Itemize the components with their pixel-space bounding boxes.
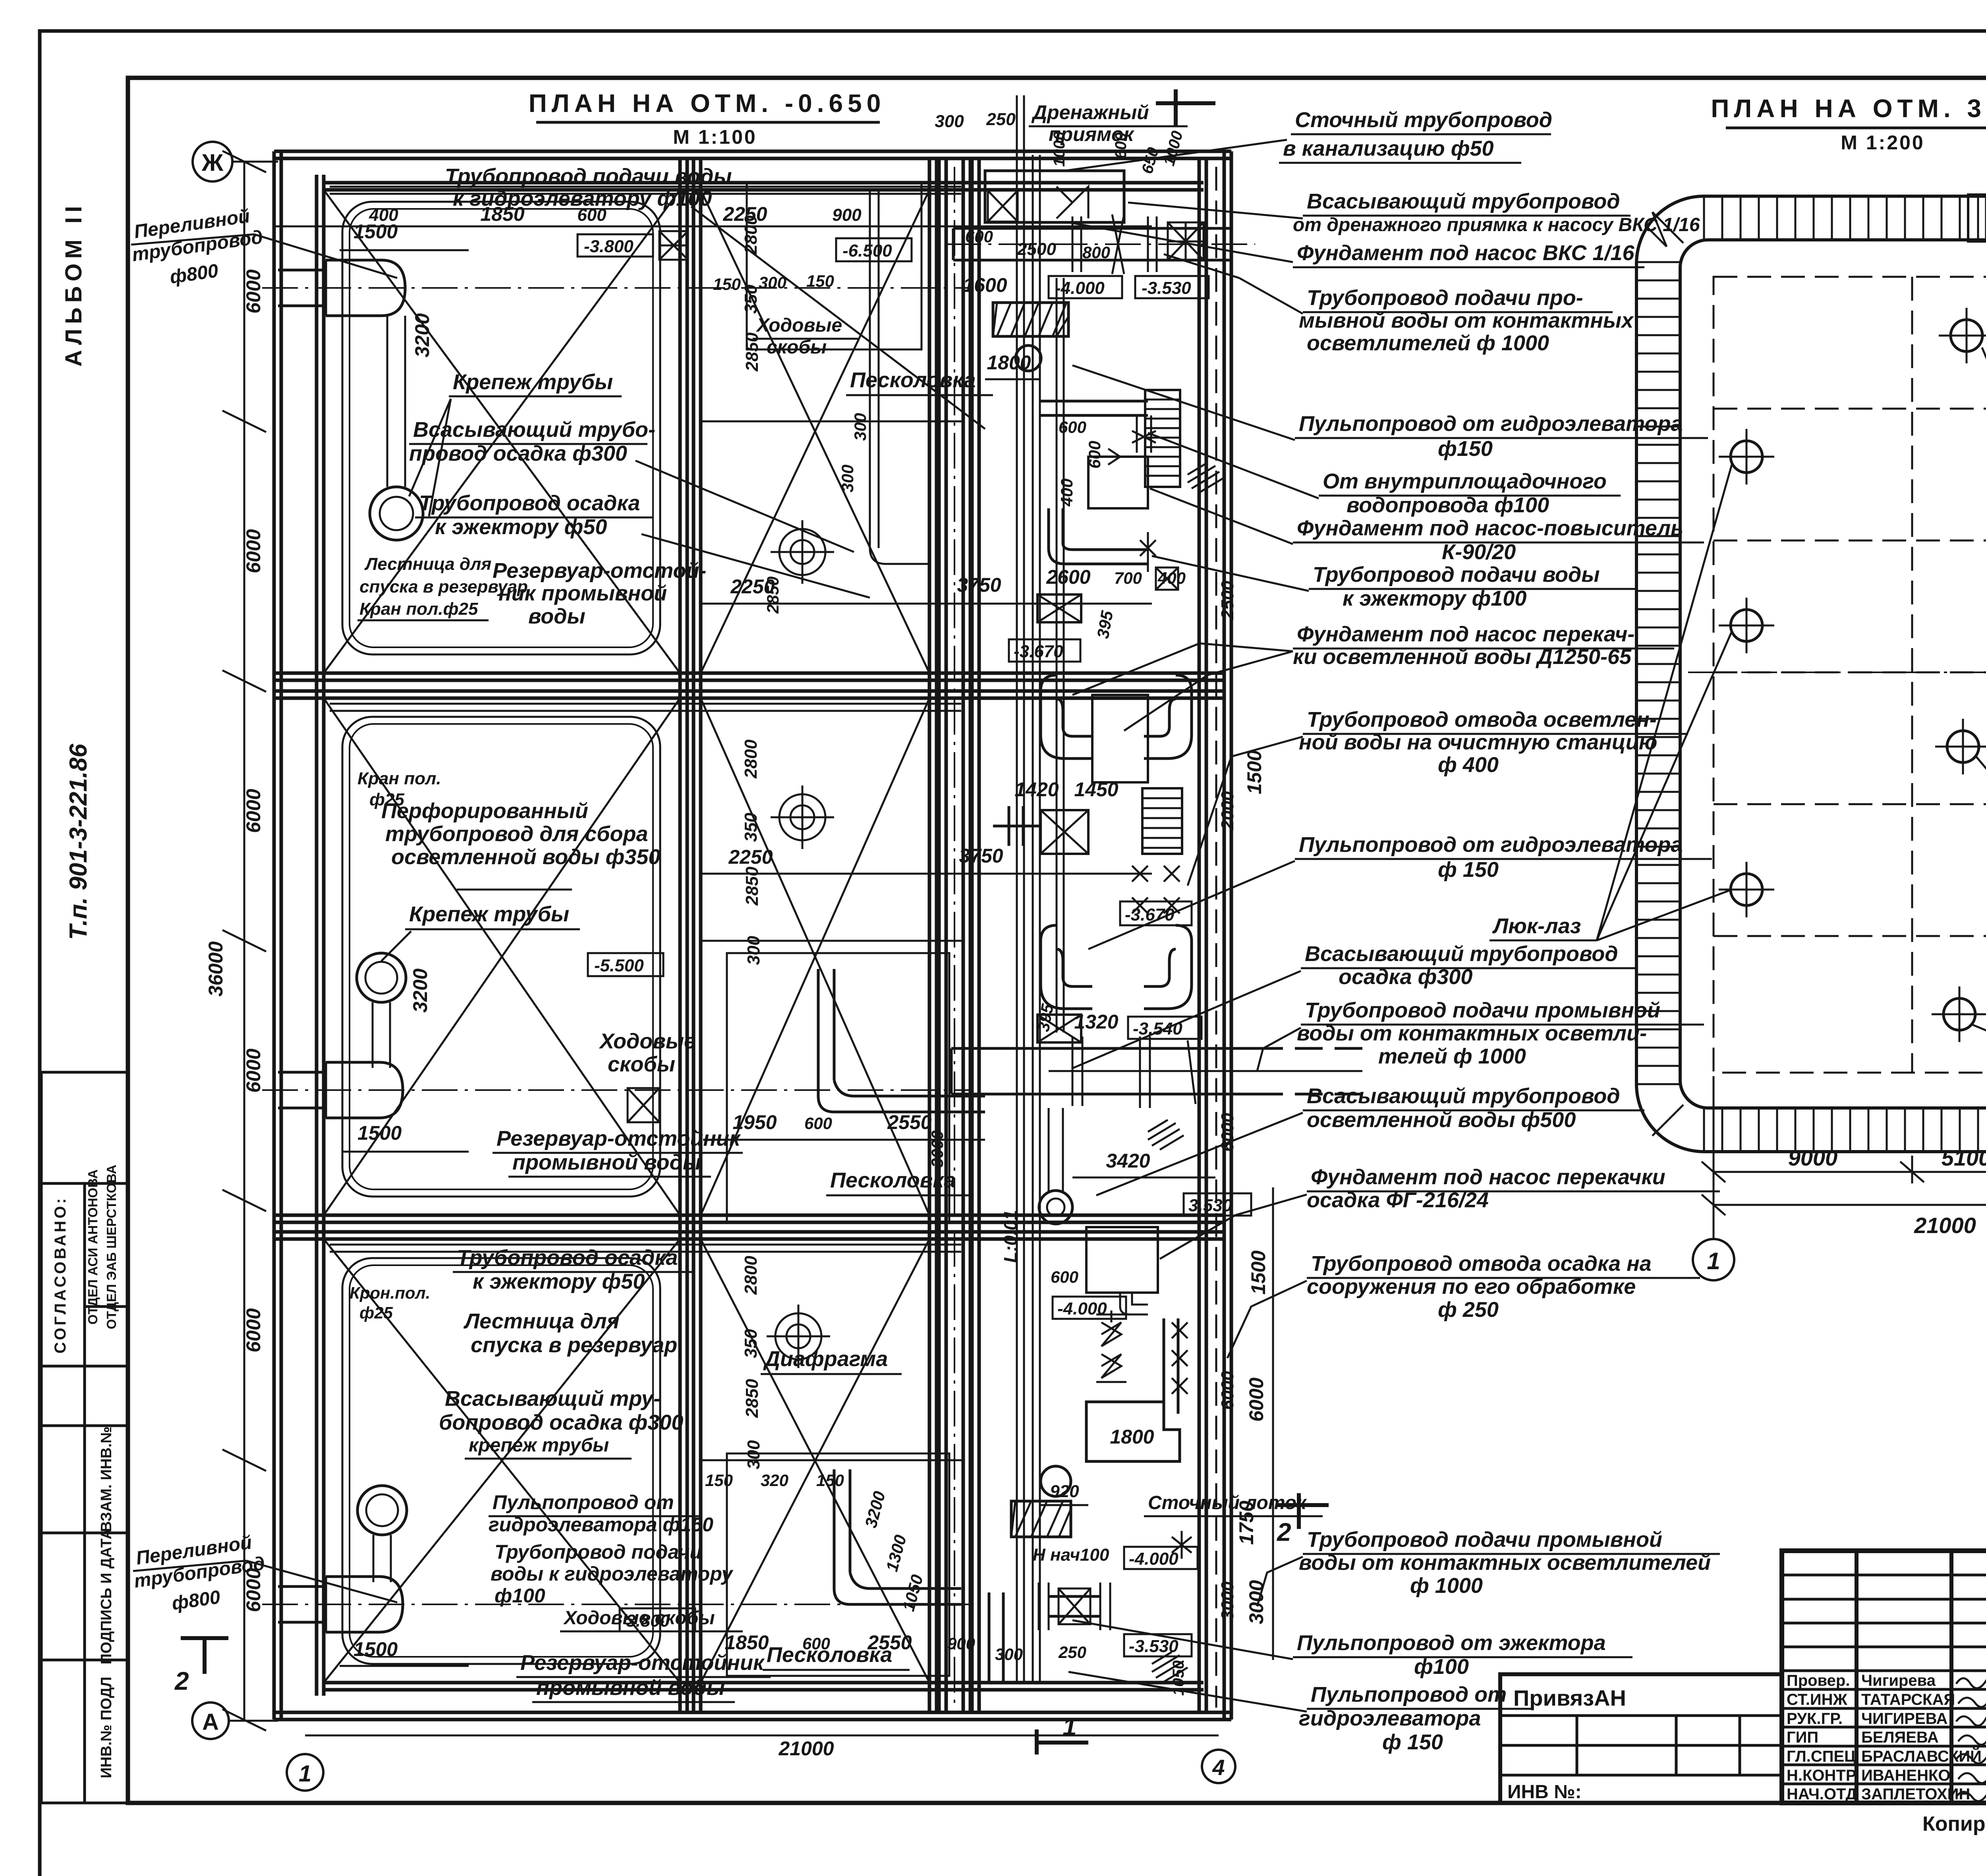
svg-text:Н нач100: Н нач100 — [1033, 1545, 1109, 1565]
diaphragm assembly — [993, 806, 1041, 846]
svg-text:-4.000: -4.000 — [1129, 1549, 1178, 1569]
svg-text:ф 1000: ф 1000 — [1410, 1574, 1483, 1598]
svg-text:1500: 1500 — [1247, 1251, 1269, 1295]
g:rightplan — [1636, 94, 1986, 1280]
svg-text:600: 600 — [1112, 132, 1130, 159]
svg-text:Лестница для: Лестница для — [364, 554, 491, 574]
funnel 1 — [771, 520, 834, 584]
margin stamp cells — [41, 1426, 128, 1803]
svg-text:Резервуар-отстойник: Резервуар-отстойник — [520, 1651, 765, 1675]
outer wall bottom — [274, 1711, 1231, 1714]
tank inner lining row2 — [342, 717, 660, 1197]
hatch squares mid — [1156, 567, 1178, 590]
svg-text:600: 600 — [1059, 418, 1086, 436]
level labels — [1049, 276, 1122, 298]
svg-text:300: 300 — [838, 465, 857, 492]
svg-text:-3.540: -3.540 — [1133, 1019, 1182, 1038]
svg-text:М 1:100: М 1:100 — [673, 126, 757, 148]
svg-text:ф150: ф150 — [1438, 437, 1493, 461]
svg-text:ЗАПЛЕТОХИН: ЗАПЛЕТОХИН — [1861, 1785, 1970, 1803]
tank inner lining row3 — [342, 1258, 660, 1664]
svg-text:300: 300 — [995, 1645, 1023, 1664]
svg-text:300: 300 — [744, 1440, 763, 1469]
svg-text:Всасывающий трубопровод: Всасывающий трубопровод — [1305, 942, 1618, 966]
svg-text:Всасывающий трубопровод: Всасывающий трубопровод — [1307, 1084, 1620, 1108]
svg-text:300: 300 — [759, 273, 786, 292]
svg-text:1950: 1950 — [732, 1111, 777, 1133]
g:leftplan — [262, 89, 1231, 1720]
border hatch ticks top — [1636, 196, 1986, 1152]
svg-text:21000: 21000 — [778, 1737, 834, 1760]
svg-text:300: 300 — [851, 413, 869, 441]
svg-text:СОГЛАСОВАНО:: СОГЛАСОВАНО: — [52, 1196, 69, 1354]
svg-text:ф 150: ф 150 — [1438, 858, 1499, 882]
section marker 2 right — [1277, 1493, 1329, 1529]
svg-text:1: 1 — [1707, 1248, 1720, 1274]
big washing-water pipe f1000 top — [953, 228, 1231, 260]
sand trap box row2 — [727, 953, 949, 1223]
svg-text:2800: 2800 — [741, 739, 761, 779]
svg-text:ПривязАН: ПривязАН — [1513, 1685, 1626, 1710]
ladder 1 — [1145, 390, 1180, 487]
axis circle A — [192, 1702, 229, 1739]
svg-text:Сточный лоток: Сточный лоток — [1148, 1492, 1307, 1513]
21000 dim — [305, 1735, 1219, 1737]
hatch marks scattered (pattern squares) — [1188, 463, 1223, 492]
svg-text:ВЗАМ. ИНВ.№: ВЗАМ. ИНВ.№ — [98, 1426, 115, 1532]
svg-text:600: 600 — [802, 1634, 830, 1653]
section marker 1 top — [1156, 89, 1215, 127]
svg-text:ф 400: ф 400 — [1438, 753, 1499, 777]
left columns — [1855, 1551, 1858, 1803]
ejector assembly bottom — [1041, 1466, 1071, 1496]
svg-text:-6.500: -6.500 — [842, 241, 892, 261]
svg-text:ТАТАРСКАЯ: ТАТАРСКАЯ — [1861, 1691, 1955, 1708]
svg-text:Сточный трубопровод: Сточный трубопровод — [1295, 108, 1552, 132]
svg-text:Т.п. 901-3-221.86: Т.п. 901-3-221.86 — [65, 744, 92, 940]
sand trap box row3 — [727, 1453, 949, 1676]
svg-text:Провер.: Провер. — [1787, 1672, 1850, 1689]
svg-text:150: 150 — [806, 272, 834, 290]
svg-text:250: 250 — [986, 110, 1016, 129]
ladder 2 — [1142, 788, 1182, 854]
svg-text:СТ.ИНЖ: СТ.ИНЖ — [1787, 1691, 1848, 1708]
svg-text:ф100: ф100 — [1414, 1655, 1469, 1679]
svg-text:Крепеж трубы: Крепеж трубы — [409, 902, 569, 926]
right-of-plan dims vertical — [1272, 1187, 1274, 1660]
svg-text:2550: 2550 — [867, 1631, 912, 1654]
svg-text:От внутриплощадочного: От внутриплощадочного — [1323, 469, 1607, 493]
svg-text:3200: 3200 — [409, 969, 431, 1013]
svg-text:БРАСЛАВСКИЙ: БРАСЛАВСКИЙ — [1861, 1747, 1982, 1765]
svg-text:350: 350 — [741, 813, 761, 842]
bottom flanged pipe assembly — [989, 1592, 1003, 1684]
svg-text:Пульпопровод от: Пульпопровод от — [493, 1491, 674, 1513]
axis dim line left — [243, 162, 245, 1720]
svg-text:ИНВ.№ ПОДЛ: ИНВ.№ ПОДЛ — [98, 1677, 115, 1778]
tank inner lining row1 — [342, 202, 660, 654]
svg-text:700: 700 — [1114, 569, 1142, 587]
svg-text:ПЛАН НА ОТМ. -0.650: ПЛАН НА ОТМ. -0.650 — [529, 89, 886, 118]
svg-text:6000: 6000 — [242, 269, 265, 313]
svg-text:1600: 1600 — [963, 274, 1007, 296]
svg-text:Пульпопровод от гидроэлеватора: Пульпопровод от гидроэлеватора — [1299, 412, 1683, 436]
svg-text:920: 920 — [1050, 1482, 1079, 1501]
svg-text:6000: 6000 — [242, 789, 265, 833]
svg-text:к эжектору ф50: к эжектору ф50 — [435, 515, 607, 539]
bottom axis circles — [287, 1754, 323, 1791]
svg-text:1450: 1450 — [1074, 778, 1118, 801]
main stamp frame — [1782, 1551, 1986, 1803]
svg-text:3420: 3420 — [1106, 1150, 1150, 1172]
svg-text:воды к гидроэлеватору: воды к гидроэлеватору — [491, 1563, 734, 1585]
svg-text:3000: 3000 — [928, 1131, 947, 1168]
svg-text:Перфорированный: Перфорированный — [381, 799, 588, 823]
svg-text:крепеж трубы: крепеж трубы — [469, 1435, 609, 1456]
tank1 drop pipe + ring — [387, 316, 405, 487]
svg-text:6000: 6000 — [242, 529, 265, 573]
svg-text:Трубопровод подачи воды: Трубопровод подачи воды — [1313, 563, 1600, 587]
svg-text:Крепеж трубы: Крепеж трубы — [453, 370, 613, 394]
svg-text:350: 350 — [741, 1329, 761, 1358]
svg-text:3.530: 3.530 — [1188, 1196, 1233, 1215]
svg-text:1750: 1750 — [1235, 1501, 1258, 1545]
sludge pump foundation — [1086, 1227, 1158, 1293]
top thin rows — [1782, 1574, 1986, 1577]
svg-text:гидроэлеватора: гидроэлеватора — [1299, 1706, 1481, 1730]
svg-text:промывной воды: промывной воды — [536, 1676, 725, 1700]
outer rounded wall — [1636, 196, 1986, 1152]
svg-text:350: 350 — [741, 284, 761, 314]
svg-text:ник промывной: ник промывной — [498, 581, 667, 605]
outer wall right — [1223, 151, 1226, 1720]
svg-text:Резервуар-отстой-: Резервуар-отстой- — [493, 559, 706, 583]
svg-text:2850: 2850 — [742, 867, 762, 906]
svg-text:6000: 6000 — [1245, 1378, 1267, 1422]
svg-text:36000: 36000 — [205, 941, 227, 996]
horiz wall row1/row2 — [274, 672, 1224, 675]
approval table — [41, 1072, 128, 1426]
svg-text:Лестница для: Лестница для — [463, 1309, 619, 1333]
svg-text:Пульпопровод от: Пульпопровод от — [1311, 1683, 1507, 1706]
svg-text:-3.800: -3.800 — [584, 237, 634, 256]
svg-text:ГИП: ГИП — [1787, 1729, 1818, 1746]
svg-text:3200: 3200 — [411, 313, 433, 357]
svg-text:2250: 2250 — [723, 203, 767, 225]
svg-text:2000: 2000 — [1218, 791, 1237, 830]
funnel 3 — [767, 1305, 830, 1368]
svg-text:скобы: скобы — [608, 1052, 675, 1076]
svg-text:2250: 2250 — [728, 846, 773, 868]
svg-text:900: 900 — [947, 1634, 975, 1653]
svg-text:в канализацию ф50: в канализацию ф50 — [1283, 137, 1494, 160]
svg-text:осветленной воды ф350: осветленной воды ф350 — [391, 845, 660, 869]
svg-text:1800: 1800 — [987, 351, 1031, 374]
svg-text:Крон.пол.: Крон.пол. — [350, 1283, 430, 1302]
svg-text:Трубопровод подачи промывной: Трубопровод подачи промывной — [1307, 1528, 1662, 1552]
svg-text:21000: 21000 — [1914, 1213, 1976, 1238]
svg-text:бопровод осадка ф300: бопровод осадка ф300 — [439, 1411, 683, 1434]
svg-text:спуска в резервуар: спуска в резервуар — [471, 1333, 677, 1357]
svg-text:400: 400 — [1057, 479, 1076, 507]
svg-text:Трубопровод подачи воды: Трубопровод подачи воды — [445, 164, 732, 188]
svg-text:от дренажного приямка к насосу: от дренажного приямка к насосу ВКС 1/16 — [1293, 214, 1700, 235]
svg-text:ОТДЕЛ АСИ АНТОНОВА: ОТДЕЛ АСИ АНТОНОВА — [85, 1170, 100, 1325]
valve + elbow cluster — [1040, 401, 1148, 415]
tank1 overflow capsule — [278, 260, 405, 316]
svg-text:-4.000: -4.000 — [1055, 278, 1105, 298]
svg-text:3750: 3750 — [959, 845, 1003, 867]
svg-text:М 1:200: М 1:200 — [1841, 131, 1924, 154]
svg-text:2600: 2600 — [1046, 566, 1090, 588]
axis circle Ж — [193, 142, 232, 181]
g:titleblock — [1500, 1551, 1986, 1835]
svg-text:3000: 3000 — [1245, 1580, 1267, 1624]
svg-text:Ходовые: Ходовые — [755, 315, 842, 336]
svg-text:Диафрагма: Диафрагма — [763, 1347, 888, 1371]
svg-text:Пульпопровод от гидроэлеватора: Пульпопровод от гидроэлеватора — [1299, 833, 1683, 857]
sand trap box row1 — [747, 183, 922, 349]
svg-text:2550: 2550 — [887, 1111, 931, 1133]
svg-text:Трубопровод отвода осадка на: Трубопровод отвода осадка на — [1311, 1252, 1652, 1276]
svg-text:ИНВ №:: ИНВ №: — [1507, 1781, 1582, 1803]
svg-text:600: 600 — [1051, 1268, 1078, 1286]
suction pipe down — [1049, 1108, 1063, 1191]
svg-text:Ходовые: Ходовые — [599, 1029, 696, 1053]
svg-text:ПОДПИСЬ И ДАТА: ПОДПИСЬ И ДАТА — [98, 1529, 115, 1664]
svg-text:А: А — [202, 1709, 219, 1735]
svg-text:ОТДЕЛ ЭАБ ШЕРСТКОВА: ОТДЕЛ ЭАБ ШЕРСТКОВА — [104, 1165, 119, 1329]
svg-text:Трубопровод подачи промывной: Трубопровод подачи промывной — [1305, 998, 1660, 1022]
svg-text:1420: 1420 — [1014, 778, 1059, 801]
valve stack — [1096, 1310, 1126, 1346]
svg-text:трубопровод для сбора: трубопровод для сбора — [385, 822, 648, 846]
svg-text:Фундамент под насос перекач-: Фундамент под насос перекач- — [1297, 622, 1634, 646]
svg-text:L:0.01: L:0.01 — [1000, 1210, 1021, 1263]
drainage pit box — [985, 171, 1124, 222]
outer wall left — [272, 151, 276, 1720]
svg-text:АЛЬБОМ II: АЛЬБОМ II — [61, 201, 87, 367]
svg-text:3750: 3750 — [957, 574, 1001, 596]
wall A tanks/middle — [678, 158, 682, 1712]
svg-text:300: 300 — [744, 936, 763, 965]
svg-text:Трубопровод подачи: Трубопровод подачи — [495, 1541, 702, 1563]
svg-text:Фундамент под насос-повыситель: Фундамент под насос-повыситель — [1297, 516, 1683, 540]
svg-text:6000: 6000 — [242, 1048, 265, 1092]
svg-text:ф 150: ф 150 — [1382, 1730, 1443, 1754]
K-90/20 pump assembly — [1088, 457, 1148, 508]
svg-text:ф 250: ф 250 — [1438, 1298, 1499, 1322]
g:centerlabels — [1064, 108, 1732, 1754]
svg-text:РУК.ГР.: РУК.ГР. — [1787, 1710, 1843, 1727]
middle column diagonals row1 — [701, 190, 929, 673]
section marker 2 left — [181, 1638, 228, 1674]
funnel 2 — [771, 786, 834, 849]
level -4.000 — [1053, 1297, 1126, 1319]
svg-text:Трубопровод осадка: Трубопровод осадка — [419, 491, 640, 515]
name rows — [1782, 1688, 1986, 1691]
top dim row — [274, 226, 1152, 228]
big washing pipe f1000 middle — [951, 1048, 1255, 1094]
pump foundation hatched — [993, 303, 1068, 336]
svg-text:Люк-лаз: Люк-лаз — [1492, 914, 1581, 938]
svg-text:скобы: скобы — [767, 337, 827, 358]
mid bay lines — [701, 421, 963, 423]
svg-text:-3.670: -3.670 — [1014, 642, 1063, 661]
svg-text:900: 900 — [832, 205, 862, 225]
svg-text:К-90/20: К-90/20 — [1442, 540, 1516, 564]
svg-text:-5.500: -5.500 — [594, 956, 644, 975]
svg-text:2850: 2850 — [763, 577, 782, 614]
svg-text:1850: 1850 — [480, 203, 524, 225]
g:leftplan texts — [131, 142, 1235, 1791]
tank3 ring + capsule — [357, 1486, 407, 1535]
svg-text:1850: 1850 — [724, 1631, 769, 1654]
svg-text:Чигирева: Чигирева — [1861, 1672, 1936, 1689]
svg-text:1500: 1500 — [354, 1638, 398, 1660]
svg-text:ПЛАН НА ОТМ. 3.000: ПЛАН НА ОТМ. 3.000 — [1711, 94, 1986, 123]
tank2 diagonals — [324, 698, 680, 1215]
svg-text:Фундамент под насос перекачки: Фундамент под насос перекачки — [1311, 1165, 1665, 1189]
svg-text:Н.КОНТР: Н.КОНТР — [1787, 1767, 1857, 1784]
svg-text:осветленной воды ф500: осветленной воды ф500 — [1307, 1108, 1576, 1132]
svg-text:Песколовка: Песколовка — [850, 368, 976, 392]
svg-text:4: 4 — [1212, 1755, 1225, 1780]
horiz wall row2/row3 — [274, 1214, 1224, 1217]
svg-text:2500: 2500 — [1218, 581, 1237, 620]
svg-text:ф100: ф100 — [495, 1585, 545, 1607]
lower elbow pair — [1041, 925, 1092, 1009]
svg-text:1500: 1500 — [357, 1122, 402, 1144]
svg-text:250: 250 — [1058, 1643, 1086, 1662]
привязан box — [1500, 1674, 1782, 1803]
svg-text:водопровода ф100: водопровода ф100 — [1347, 493, 1549, 517]
svg-text:Кран пол.ф25: Кран пол.ф25 — [359, 599, 478, 619]
svg-text:2: 2 — [174, 1667, 189, 1695]
outer wall top — [274, 150, 1231, 153]
svg-text:-3.530: -3.530 — [1142, 278, 1191, 298]
svg-text:Ж: Ж — [201, 149, 224, 176]
tank2 ring + drop pipe + capsule — [357, 953, 406, 1002]
svg-text:Трубопровод осадка: Трубопровод осадка — [457, 1246, 678, 1270]
inner dashed grid — [1714, 277, 1986, 1073]
svg-text:2800: 2800 — [741, 1256, 761, 1295]
tank1 diagonals — [324, 190, 680, 673]
svg-text:5100: 5100 — [1942, 1145, 1986, 1170]
svg-text:1: 1 — [299, 1761, 311, 1787]
svg-text:400: 400 — [369, 205, 398, 225]
manhole circles — [1719, 308, 1986, 1042]
svg-text:промывной воды: промывной воды — [512, 1150, 701, 1174]
svg-text:1: 1 — [1063, 1712, 1077, 1741]
svg-text:Трубопровод подачи про-: Трубопровод подачи про- — [1307, 286, 1583, 310]
svg-text:осветлителей ф 1000: осветлителей ф 1000 — [1307, 331, 1549, 355]
svg-text:2850: 2850 — [742, 1379, 762, 1418]
bottom axis circles — [1693, 1239, 1734, 1280]
svg-text:БЕЛЯЕВА: БЕЛЯЕВА — [1861, 1729, 1939, 1746]
svg-text:Всасывающий трубопровод: Всасывающий трубопровод — [1307, 189, 1620, 213]
svg-text:1500: 1500 — [1243, 750, 1265, 794]
svg-text:Кран пол.: Кран пол. — [357, 769, 441, 788]
wall B middle/walk — [928, 158, 931, 1712]
signatures squiggles — [1956, 1676, 1986, 1801]
interior pipes along tank tops — [330, 186, 961, 188]
svg-text:Копировал: Копшунова: Копировал: Копшунова — [1922, 1812, 1986, 1835]
svg-text:к эжектору ф50: к эжектору ф50 — [473, 1270, 645, 1293]
svg-text:150: 150 — [705, 1471, 733, 1490]
svg-text:150: 150 — [713, 275, 741, 293]
svg-text:НАЧ.ОТД: НАЧ.ОТД — [1787, 1785, 1857, 1803]
svg-text:ф25: ф25 — [359, 1303, 393, 1322]
svg-text:воды: воды — [528, 604, 585, 628]
svg-text:-4.000: -4.000 — [1057, 1299, 1107, 1318]
section marker 1 bottom — [1037, 1729, 1088, 1754]
svg-text:300: 300 — [935, 112, 964, 131]
second foundation — [1086, 1402, 1180, 1461]
svg-text:ЧИГИРЕВА: ЧИГИРЕВА — [1861, 1710, 1947, 1727]
svg-text:1800: 1800 — [1110, 1426, 1154, 1448]
corridor left wall — [962, 158, 965, 1712]
svg-text:телей ф 1000: телей ф 1000 — [1378, 1044, 1526, 1068]
svg-text:Дренажный: Дренажный — [1031, 101, 1149, 124]
svg-text:150: 150 — [816, 1471, 844, 1490]
g:corridor — [935, 89, 1362, 1708]
svg-text:Фундамент под насос ВКС 1/16: Фундамент под насос ВКС 1/16 — [1297, 241, 1634, 265]
big elbow pipes (clarified water pump suction) — [1041, 675, 1092, 759]
svg-text:ИВАНЕНКО: ИВАНЕНКО — [1861, 1767, 1951, 1784]
corridor right wall — [1198, 158, 1201, 1712]
svg-text:2500: 2500 — [1017, 239, 1056, 259]
svg-text:Всасывающий трубо-: Всасывающий трубо- — [413, 418, 655, 442]
svg-text:Песколовка: Песколовка — [830, 1168, 956, 1192]
g:sidebar — [41, 201, 128, 1803]
svg-text:1000: 1000 — [1051, 131, 1068, 167]
svg-text:2: 2 — [1277, 1518, 1291, 1546]
svg-text:Резервуар-отстойник: Резервуар-отстойник — [496, 1127, 741, 1150]
svg-text:6000: 6000 — [242, 1308, 265, 1352]
svg-text:ГЛ.СПЕЦ: ГЛ.СПЕЦ — [1787, 1748, 1856, 1765]
svg-text:600: 600 — [804, 1114, 832, 1133]
svg-text:9000: 9000 — [1788, 1145, 1838, 1170]
svg-text:Пульпопровод от эжектора: Пульпопровод от эжектора — [1297, 1631, 1606, 1655]
svg-text:провод осадка ф300: провод осадка ф300 — [409, 442, 627, 465]
svg-text:Трубопровод отвода осветлен-: Трубопровод отвода осветлен- — [1307, 708, 1657, 731]
svg-text:600: 600 — [577, 205, 607, 225]
svg-text:3000: 3000 — [1218, 1581, 1237, 1620]
bottom dims — [1714, 1171, 1986, 1173]
svg-text:Всасывающий тру-: Всасывающий тру- — [445, 1387, 661, 1411]
svg-text:320: 320 — [761, 1471, 788, 1490]
svg-text:6000: 6000 — [1218, 1371, 1237, 1410]
tank3 diagonals — [324, 1239, 680, 1683]
svg-text:600: 600 — [965, 227, 993, 246]
svg-text:к эжектору ф100: к эжектору ф100 — [1343, 587, 1526, 610]
main vertical pipe pair — [1016, 95, 1018, 1684]
svg-text:3.800: 3.800 — [626, 1611, 670, 1631]
